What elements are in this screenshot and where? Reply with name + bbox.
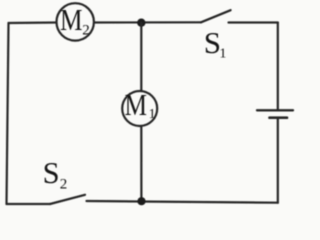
svg-text:2: 2: [82, 22, 90, 38]
wire top-middle (M2 to switch S1): [95, 21, 201, 23]
wire bottom-right (corner to S2): [87, 201, 278, 203]
wire right side upper: [277, 23, 279, 110]
motor M1: [122, 91, 157, 126]
switch S1 fixed contact: [229, 21, 278, 23]
wire middle branch upper: [140, 23, 142, 91]
battery cell short plate: [270, 116, 288, 119]
switch S1 blade: [201, 10, 231, 22]
node top junction: [137, 19, 145, 27]
wire top-left (to M2): [9, 21, 57, 24]
motor M2: [56, 3, 93, 40]
svg-text:M: M: [60, 4, 83, 38]
svg-text:1: 1: [149, 107, 156, 122]
svg-text:1: 1: [219, 47, 226, 62]
wire left side: [7, 23, 9, 204]
node bottom junction: [137, 197, 145, 205]
svg-text:2: 2: [60, 176, 67, 192]
wire middle branch lower: [140, 126, 142, 201]
switch S2 blade: [50, 195, 85, 204]
battery cell long plate: [257, 109, 293, 111]
svg-text:S: S: [43, 156, 60, 190]
wire bottom-left: [7, 203, 51, 205]
wire right side lower: [277, 119, 279, 203]
svg-text:M: M: [125, 89, 148, 123]
